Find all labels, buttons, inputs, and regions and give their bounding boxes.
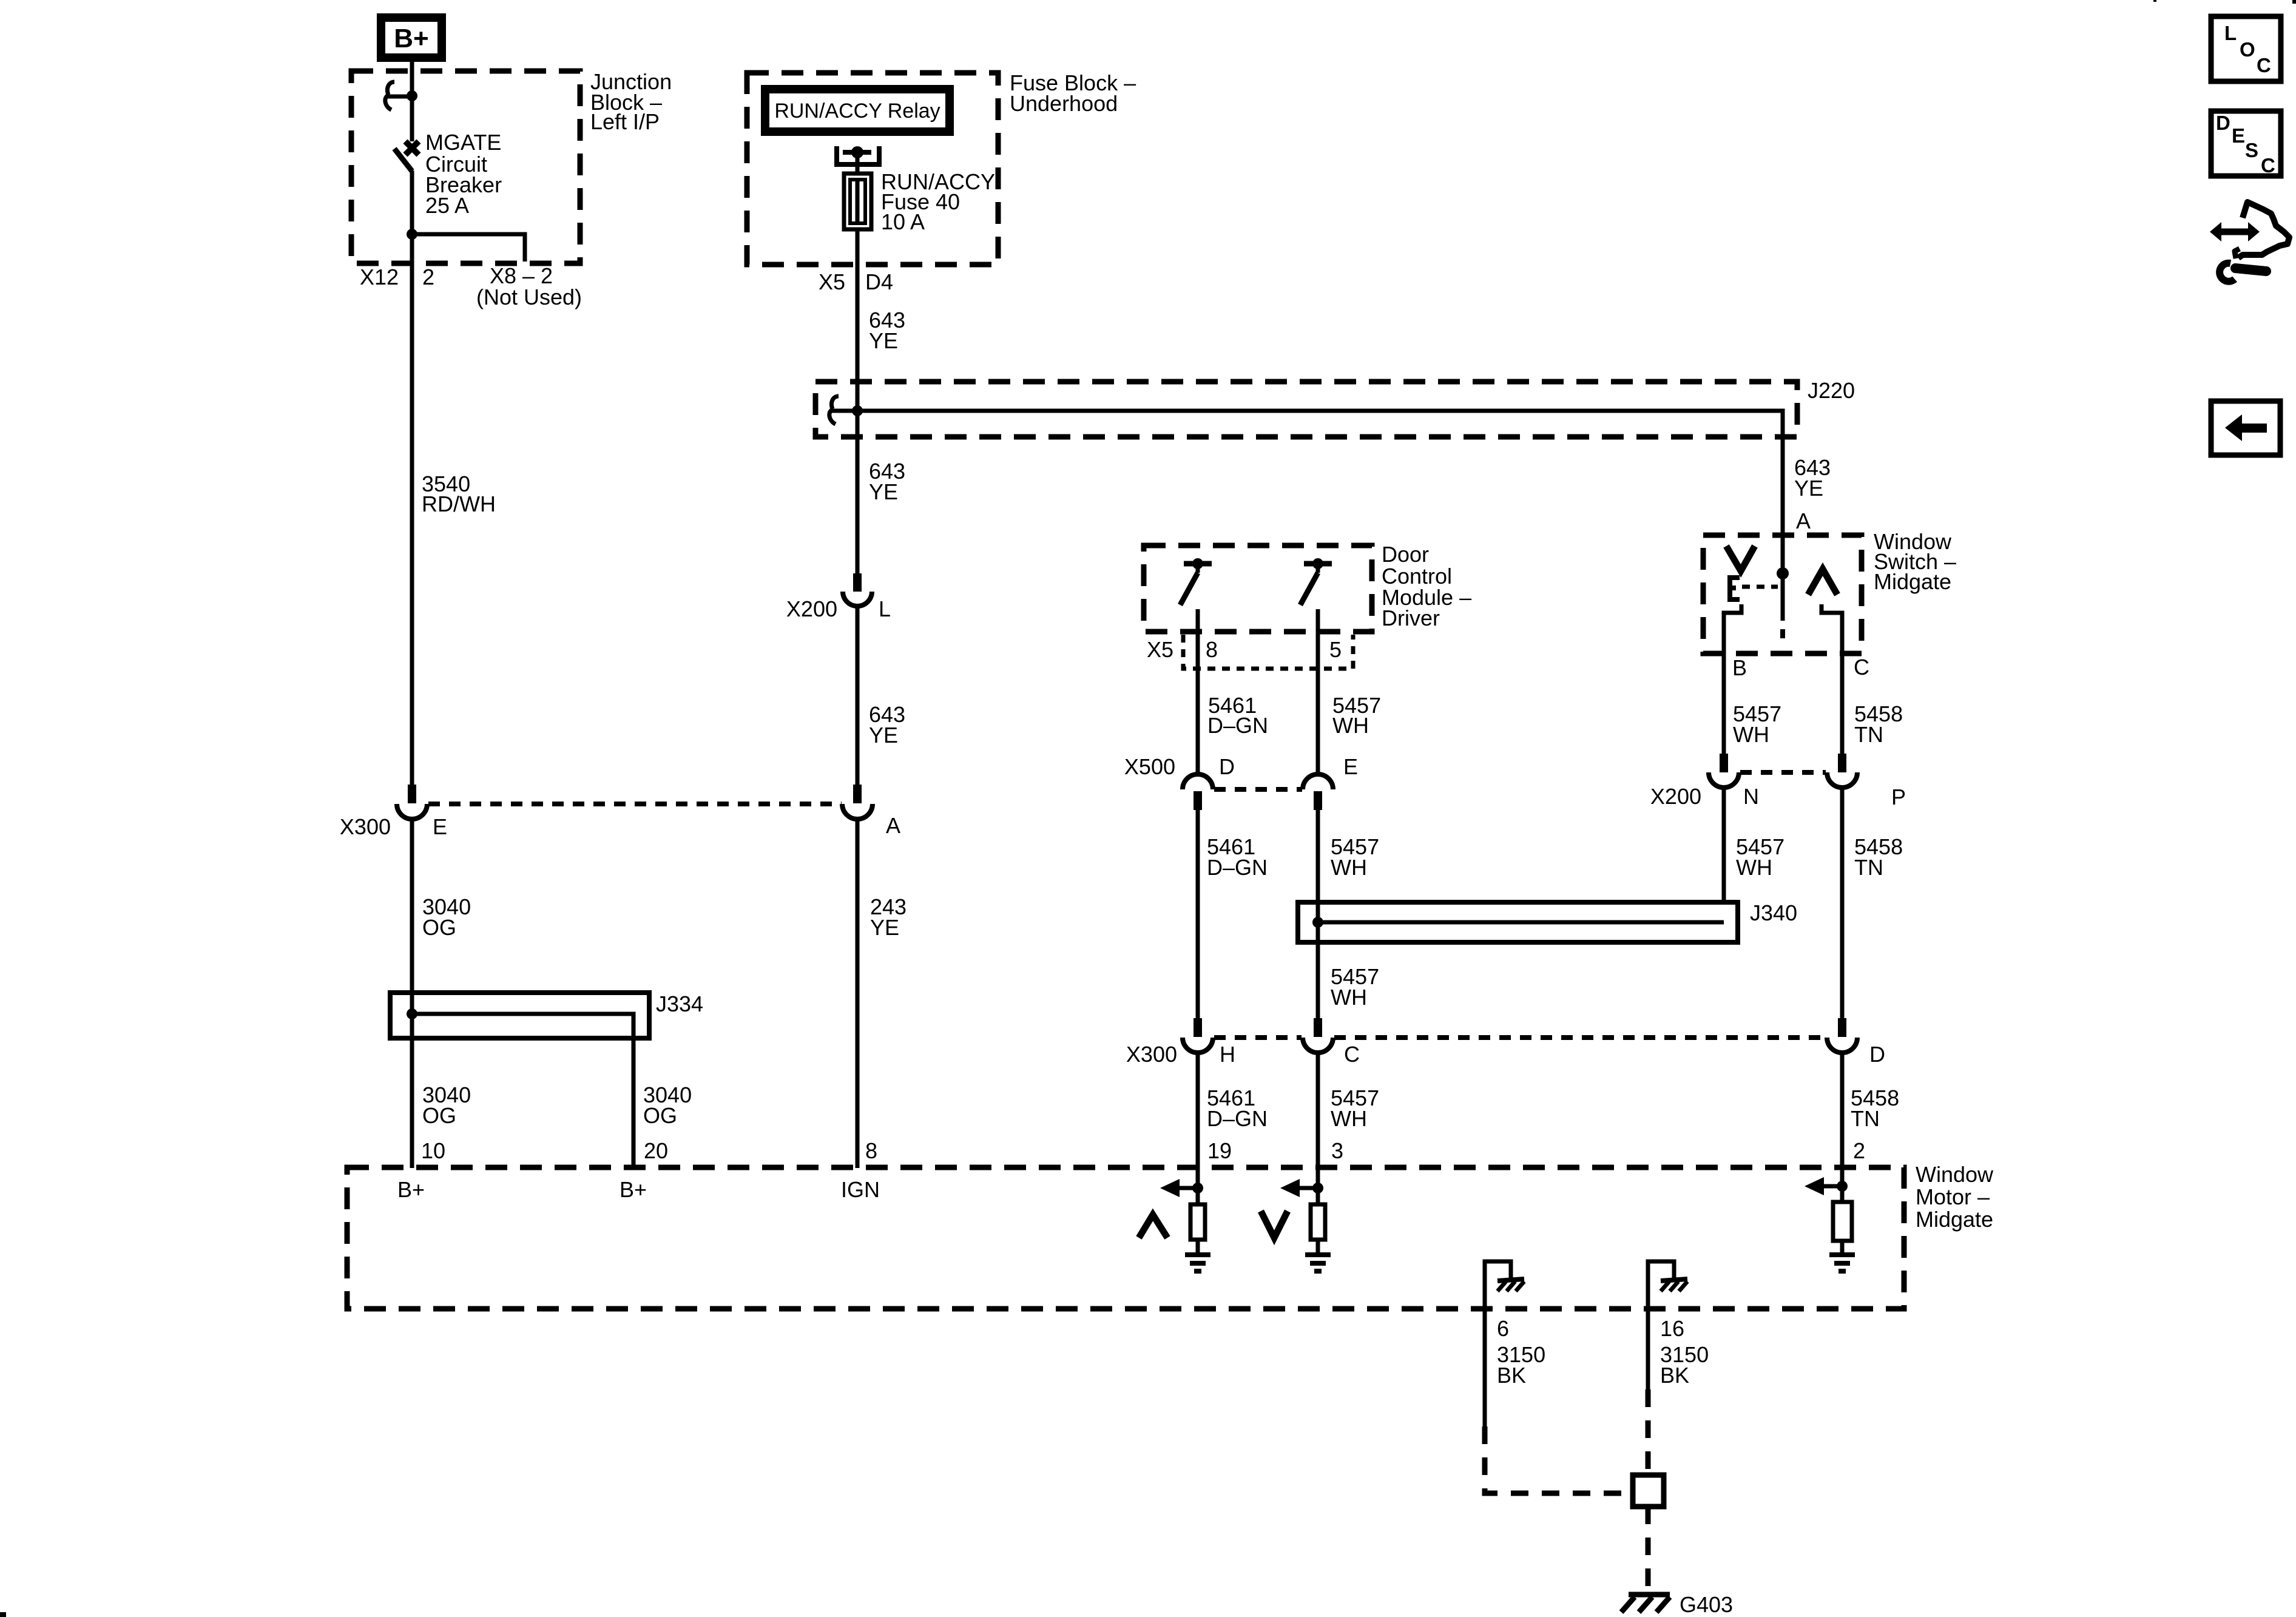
- svg-text:X12: X12: [360, 265, 399, 289]
- label 3150 BK right: [1660, 1342, 1709, 1388]
- label Fuse Block - Underhood: [1010, 70, 1136, 116]
- svg-text:A: A: [886, 813, 900, 838]
- svg-text:5: 5: [1329, 637, 1342, 662]
- motor element 3: [1311, 1204, 1325, 1240]
- relay output terminal bracket: [837, 146, 879, 164]
- DCM switch 2: [1300, 558, 1332, 605]
- label 3150 BK left: [1497, 1342, 1545, 1388]
- svg-text:B+: B+: [397, 1177, 425, 1202]
- wire 243 YE: [856, 819, 860, 1168]
- connector X500 D pin: [1194, 791, 1202, 810]
- label 5457 WH top right: [1733, 701, 1781, 747]
- label Window Motor - Midgate: [1916, 1162, 1994, 1232]
- switch up-arrow symbol: [1808, 569, 1837, 595]
- Junction Block - Left I/P dashed box: [351, 71, 580, 263]
- connector X500 D arc: [1183, 774, 1213, 789]
- motor element 19: [1190, 1204, 1205, 1240]
- motor ground clip 6: [1485, 1261, 1524, 1309]
- page mark top: [2153, 0, 2156, 2]
- wire 643 YE to X300 A: [856, 606, 860, 785]
- label 5457 WH below J340: [1331, 964, 1379, 1010]
- page corner mark bottom-left: [0, 1612, 6, 1617]
- svg-text:WH: WH: [1736, 855, 1772, 880]
- relay terminal bar: [843, 150, 871, 155]
- svg-text:D–GN: D–GN: [1207, 855, 1268, 880]
- label 3540 RD/WH: [422, 471, 496, 516]
- svg-text:16: 16: [1660, 1316, 1684, 1341]
- svg-text:19: 19: [1207, 1138, 1232, 1163]
- svg-text:TN: TN: [1854, 722, 1883, 747]
- connector X300 C pin: [1314, 1018, 1322, 1037]
- svg-text:WH: WH: [1331, 1106, 1367, 1131]
- wire dashed to G403: [1646, 1507, 1651, 1595]
- svg-text:2: 2: [422, 265, 434, 289]
- connector X300 E pin: [408, 785, 416, 803]
- svg-text:B+: B+: [394, 24, 428, 53]
- svg-text:Motor –: Motor –: [1916, 1184, 1990, 1209]
- svg-text:BK: BK: [1497, 1363, 1526, 1388]
- svg-text:X200: X200: [1650, 784, 1701, 809]
- svg-text:L: L: [2224, 22, 2237, 44]
- connector X5 dotted outline: [1183, 635, 1353, 669]
- connector X200 P arc: [1827, 772, 1857, 788]
- label 5457 WH bottom: [1331, 1085, 1379, 1131]
- svg-text:A: A: [1796, 508, 1811, 533]
- switch mechanical link dashed: [1742, 585, 1778, 589]
- svg-text:2: 2: [1853, 1138, 1865, 1163]
- svg-text:G403: G403: [1680, 1592, 1733, 1617]
- motor element 2: [1833, 1202, 1852, 1241]
- connector X500 E pin: [1314, 791, 1322, 810]
- switch contact bracket: [1730, 578, 1740, 599]
- svg-text:10: 10: [421, 1138, 445, 1163]
- svg-text:Driver: Driver: [1382, 606, 1440, 630]
- svg-text:10 A: 10 A: [881, 209, 925, 234]
- svg-text:Underhood: Underhood: [1010, 91, 1118, 116]
- wire 3150 BK pin 16: [1646, 1309, 1650, 1389]
- svg-text:D4: D4: [865, 269, 893, 294]
- motor element 3 ground: [1305, 1240, 1331, 1271]
- wire switch to pin B: [1724, 604, 1741, 754]
- label 5457 WH right mid: [1736, 834, 1784, 880]
- svg-text:WH: WH: [1331, 985, 1367, 1010]
- svg-text:6: 6: [1497, 1316, 1509, 1341]
- motor terminal 2 arrow: [1805, 1167, 1848, 1202]
- label Junction Block - Left I/P: [590, 69, 672, 134]
- ground G403: [1621, 1595, 1670, 1612]
- svg-text:IGN: IGN: [841, 1177, 880, 1202]
- connector X300 A arc: [842, 804, 873, 819]
- svg-text:MGATE: MGATE: [425, 130, 501, 155]
- svg-text:YE: YE: [1794, 476, 1823, 501]
- svg-text:B+: B+: [620, 1177, 647, 1202]
- DESC sidebar icon: [2211, 111, 2281, 177]
- label 643 YE left: [869, 459, 905, 504]
- svg-text:C: C: [2261, 154, 2275, 177]
- label 3040 OG right: [643, 1082, 692, 1128]
- breaker blade: [394, 149, 412, 171]
- wire 5458 TN to X300 D: [1840, 787, 1845, 1018]
- motor element 19 ground: [1185, 1240, 1210, 1271]
- svg-text:Door: Door: [1382, 542, 1429, 567]
- svg-text:N: N: [1743, 784, 1759, 809]
- svg-text:X200: X200: [786, 596, 837, 621]
- svg-text:YE: YE: [869, 328, 898, 353]
- svg-text:C: C: [1854, 655, 1869, 680]
- svg-text:BK: BK: [1660, 1363, 1689, 1388]
- svg-text:25 A: 25 A: [425, 193, 469, 218]
- fuse RUN/ACCY Fuse 40: [844, 174, 871, 229]
- svg-text:TN: TN: [1854, 855, 1883, 880]
- svg-text:D–GN: D–GN: [1207, 1106, 1268, 1131]
- LOC sidebar icon: [2211, 16, 2281, 81]
- Window Switch - Midgate dashed box: [1703, 535, 1862, 653]
- wire J340 splice: [1318, 920, 1724, 925]
- wire breaker to node: [410, 170, 414, 234]
- svg-text:D: D: [2216, 112, 2230, 134]
- svg-text:8: 8: [865, 1138, 877, 1163]
- svg-text:TN: TN: [1851, 1106, 1880, 1131]
- wire hook to node: [388, 95, 412, 99]
- connector X300 H arc: [1183, 1038, 1213, 1053]
- svg-text:C: C: [1344, 1042, 1360, 1067]
- label 5461 D-GN: [1207, 693, 1268, 738]
- svg-text:X5: X5: [1147, 637, 1173, 662]
- wire through J334: [410, 993, 414, 1168]
- wire 5461 D-GN to X300 H: [1196, 809, 1200, 1018]
- svg-text:Midgate: Midgate: [1916, 1207, 1993, 1232]
- svg-text:X500: X500: [1124, 754, 1175, 779]
- label Door Control Module - Driver: [1382, 542, 1471, 630]
- J340 splice box: [1298, 902, 1738, 942]
- motor element 2 ground: [1829, 1241, 1855, 1271]
- label RUN/ACCY Fuse 40 10 A: [881, 169, 995, 234]
- svg-text:Left I/P: Left I/P: [590, 109, 660, 134]
- wire 3040 OG: [410, 819, 414, 1014]
- node relay terminal: [851, 146, 863, 158]
- svg-text:C: C: [2257, 54, 2271, 76]
- wire 5457 WH: [1316, 609, 1320, 775]
- wire 5458 TN to motor 2: [1840, 1052, 1845, 1168]
- connector X200 N pin: [1720, 754, 1728, 772]
- svg-text:E: E: [1343, 754, 1358, 779]
- connector X300 H pin: [1194, 1018, 1202, 1037]
- wrench sidebar icon: [2220, 263, 2266, 282]
- label 643 YE: [869, 308, 905, 353]
- svg-text:P: P: [1891, 785, 1906, 809]
- wire B+ to breaker: [410, 58, 414, 141]
- page corner mark top-right: [2292, 0, 2296, 4]
- B+ power symbol box: [381, 18, 442, 58]
- MGATE Circuit Breaker 25 A label: [425, 130, 502, 218]
- label 5461 D-GN bottom: [1207, 1085, 1268, 1131]
- svg-text:X5: X5: [819, 269, 845, 294]
- svg-text:E: E: [2232, 124, 2245, 147]
- circuit breaker hook: [385, 82, 394, 110]
- svg-text:X300: X300: [1126, 1042, 1177, 1067]
- wire branch to X8-2 stub: [412, 234, 525, 262]
- wire 3540 RD/WH: [410, 234, 414, 785]
- Door Control Module - Driver dashed box: [1144, 545, 1372, 632]
- switch V symbol (down): [1726, 546, 1755, 571]
- svg-text:RUN/ACCY Relay: RUN/ACCY Relay: [774, 100, 940, 123]
- svg-text:(Not Used): (Not Used): [476, 285, 582, 309]
- breaker contact X mark: [405, 141, 419, 155]
- wire 5457 WH through J340: [1316, 902, 1320, 942]
- switch actuator dashed stub: [1781, 573, 1785, 621]
- DCM switch 1: [1180, 558, 1212, 605]
- label 3040 OG left: [422, 1082, 471, 1128]
- connector X200 P pin: [1838, 754, 1846, 772]
- motor ground clip 16: [1648, 1261, 1687, 1309]
- J334 splice box: [390, 993, 649, 1038]
- label 5458 TN top right: [1854, 701, 1903, 747]
- svg-text:YE: YE: [869, 723, 898, 748]
- connector X200 L arc: [843, 592, 872, 606]
- connector X300 D pin: [1838, 1018, 1846, 1037]
- inline connector square: [1633, 1475, 1664, 1507]
- svg-text:OG: OG: [422, 1103, 456, 1128]
- node on breaker input: [407, 90, 417, 101]
- J220 splice hook: [829, 396, 839, 424]
- connector X300 dotted line C to D: [1334, 1035, 1826, 1040]
- svg-text:L: L: [879, 596, 891, 621]
- wire hook to node: [832, 409, 857, 413]
- svg-text:WH: WH: [1331, 855, 1367, 880]
- svg-text:Window: Window: [1916, 1162, 1994, 1187]
- svg-text:RD/WH: RD/WH: [422, 491, 496, 516]
- J220 splice dashed box: [815, 382, 1797, 437]
- motor up-arrow glyph: [1139, 1215, 1167, 1238]
- label 643 YE right: [1794, 455, 1831, 501]
- connector X200 N arc: [1709, 772, 1739, 788]
- svg-text:S: S: [2245, 139, 2258, 161]
- svg-text:3: 3: [1331, 1138, 1343, 1163]
- label 5458 TN right mid: [1854, 834, 1903, 880]
- svg-text:D: D: [1869, 1042, 1885, 1067]
- connector X200 dotted line N to P: [1740, 770, 1826, 775]
- svg-text:H: H: [1220, 1042, 1235, 1067]
- hand with arrow sidebar icon: [2210, 202, 2289, 258]
- back arrow sidebar icon: [2211, 401, 2280, 455]
- node J220: [852, 405, 863, 416]
- connector X300 E arc: [397, 804, 427, 819]
- motor terminal 19 arrow: [1160, 1167, 1203, 1204]
- wire 3150 BK pin 6: [1483, 1309, 1487, 1426]
- wire 5461 D-GN: [1196, 609, 1200, 775]
- label 5458 TN bottom: [1851, 1085, 1899, 1131]
- svg-text:D: D: [1219, 754, 1235, 779]
- label 3040 OG: [422, 894, 471, 940]
- svg-text:8: 8: [1206, 637, 1218, 662]
- wire switch to pin C: [1822, 604, 1842, 754]
- motor terminal 3 arrow: [1280, 1167, 1323, 1204]
- label 5457 WH mid: [1331, 834, 1379, 880]
- node J334: [407, 1008, 417, 1019]
- svg-text:20: 20: [644, 1138, 668, 1163]
- svg-text:J334: J334: [656, 991, 703, 1016]
- svg-text:OG: OG: [643, 1103, 677, 1128]
- svg-text:WH: WH: [1332, 713, 1369, 738]
- wire pin 6 dashed to splice: [1485, 1426, 1631, 1493]
- wire pin 16 dashed to splice: [1646, 1389, 1651, 1475]
- svg-text:B: B: [1732, 655, 1747, 680]
- svg-text:X300: X300: [340, 814, 391, 839]
- svg-text:E: E: [433, 814, 447, 839]
- label 5457 WH: [1332, 693, 1381, 738]
- wire 5457 WH to X300 C: [1316, 809, 1320, 1018]
- connector X300 A pin: [853, 785, 862, 803]
- svg-text:D–GN: D–GN: [1207, 713, 1268, 738]
- wire terminal to fuse: [856, 152, 860, 176]
- connector X500 dotted line D to E: [1214, 787, 1302, 792]
- svg-text:O: O: [2240, 38, 2255, 61]
- wire 5457 WH to motor 3: [1316, 1052, 1320, 1168]
- svg-text:WH: WH: [1733, 722, 1769, 747]
- connector X300 C arc: [1303, 1038, 1333, 1053]
- wire 5461 D-GN to motor 19: [1196, 1052, 1200, 1168]
- Fuse Block - Underhood dashed box: [747, 73, 998, 265]
- label 243 YE: [870, 894, 907, 940]
- wire J220 to window switch A: [857, 411, 1783, 573]
- connector X300 dotted line E to A: [428, 802, 842, 806]
- connector X500 E arc: [1303, 774, 1333, 789]
- svg-text:YE: YE: [869, 479, 898, 504]
- svg-text:J340: J340: [1750, 900, 1797, 925]
- connector X300 D arc: [1827, 1038, 1857, 1053]
- svg-text:Midgate: Midgate: [1874, 569, 1951, 594]
- connector X300 dotted line H to C: [1214, 1035, 1302, 1040]
- Window Motor - Midgate dashed box: [347, 1167, 1904, 1309]
- label Window Switch - Midgate: [1874, 529, 1956, 594]
- node window switch common: [1777, 567, 1789, 579]
- svg-text:J220: J220: [1808, 378, 1855, 403]
- node X8-2 branch: [407, 229, 417, 240]
- wire fuse to X5 D4: [856, 229, 860, 411]
- label 643 YE lower: [869, 702, 905, 748]
- RUN/ACCY Relay box: [765, 89, 950, 132]
- wire J220 down 643 YE: [856, 411, 860, 574]
- wire J334 branch: [412, 1014, 633, 1168]
- wire 5457 WH to J340: [1722, 787, 1726, 922]
- svg-text:YE: YE: [870, 915, 899, 940]
- connector X200 L pin: [853, 573, 862, 592]
- label 5461 D-GN mid: [1207, 834, 1268, 880]
- node J340: [1312, 917, 1323, 928]
- svg-text:OG: OG: [422, 915, 456, 940]
- motor V glyph: [1261, 1211, 1288, 1238]
